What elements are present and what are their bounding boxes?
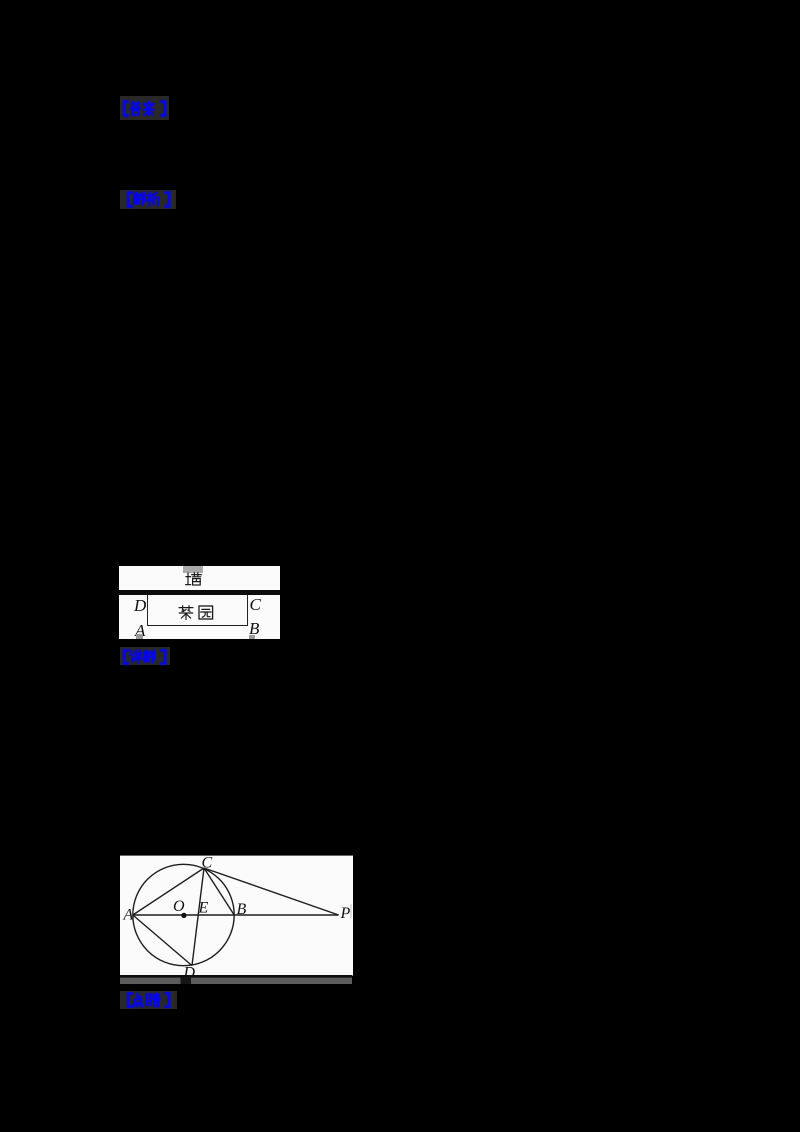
svg-text:D: D [183,965,196,982]
svg-text:C: C [202,855,213,872]
svg-text:P: P [340,905,351,922]
svg-text:B: B [237,901,247,918]
svg-text:O: O [173,898,185,915]
svg-text:A: A [123,907,134,924]
svg-text:E: E [198,900,209,917]
